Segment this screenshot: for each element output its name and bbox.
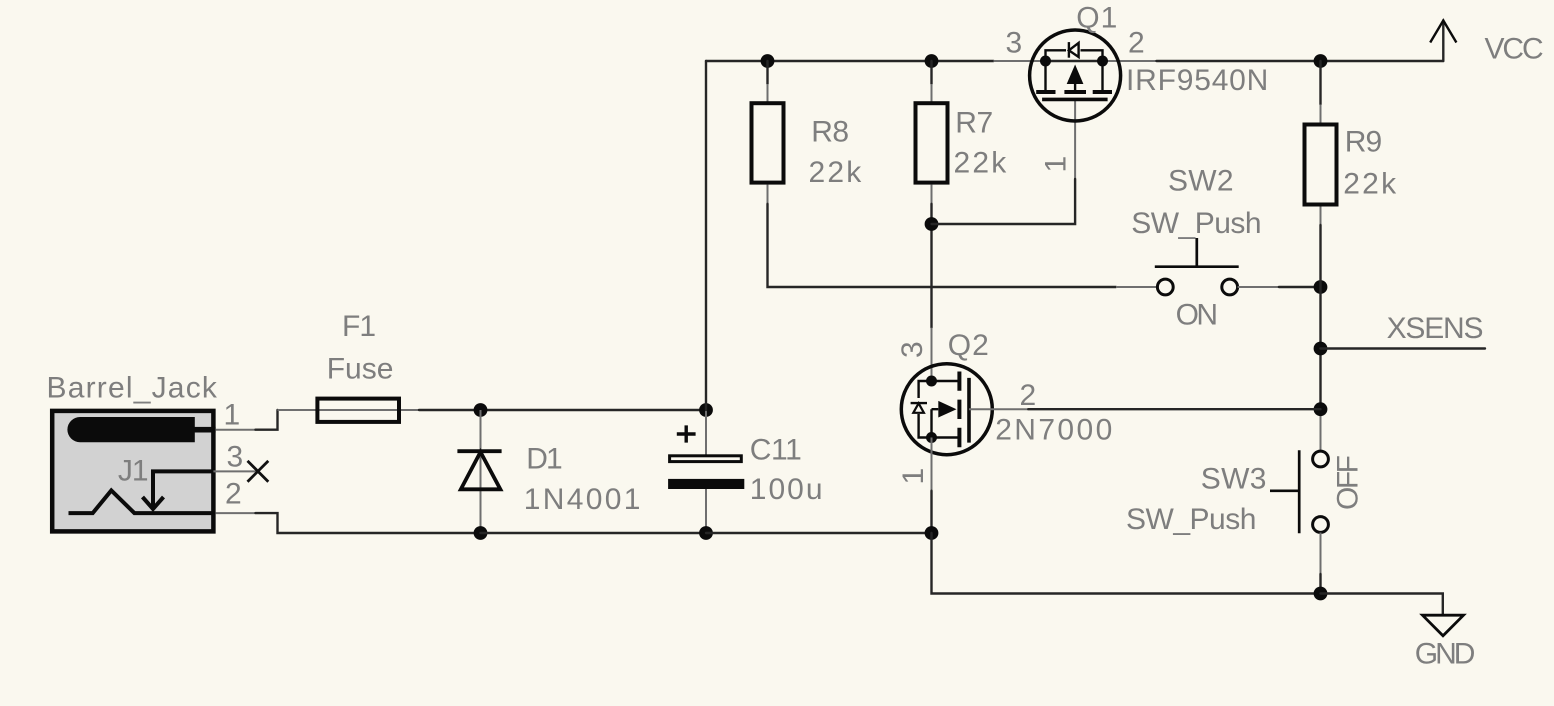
wire J1 pin3 stub bbox=[213, 470, 258, 472]
svg-text:3: 3 bbox=[227, 440, 244, 473]
svg-text:2: 2 bbox=[225, 478, 242, 511]
wire D1 to C11 top bbox=[481, 409, 707, 411]
wire top rail bbox=[706, 60, 994, 62]
wire SW3 bottom to GND rail bbox=[1320, 533, 1322, 575]
svg-text:2: 2 bbox=[1020, 379, 1037, 412]
resistor R8 bbox=[752, 103, 784, 182]
wire GND rail to ground symbol bbox=[1321, 594, 1443, 615]
transistor Q2 2N7000 bbox=[901, 364, 992, 455]
junction node SW2 R9 bbox=[1314, 280, 1328, 294]
junction bottom rail at D1 bbox=[474, 526, 488, 540]
svg-text:22k: 22k bbox=[809, 156, 864, 189]
svg-text:Fuse: Fuse bbox=[327, 352, 394, 385]
resistor R9 bbox=[1305, 125, 1337, 205]
svg-text:VCC: VCC bbox=[1485, 32, 1543, 65]
svg-text:R8: R8 bbox=[811, 116, 848, 149]
wire bottom rail C11 to Q2 bbox=[706, 532, 932, 534]
svg-text:1: 1 bbox=[224, 399, 241, 432]
svg-text:J1: J1 bbox=[118, 455, 148, 488]
no-connect X on J1 pin 3 bbox=[248, 461, 269, 482]
svg-text:Q1: Q1 bbox=[1076, 2, 1118, 35]
svg-text:22k: 22k bbox=[1343, 168, 1398, 201]
fuse F1 bbox=[317, 399, 399, 422]
svg-text:1N4001: 1N4001 bbox=[524, 483, 643, 516]
junction bottom rail at C11 bbox=[699, 526, 713, 540]
svg-text:IRF9540N: IRF9540N bbox=[1126, 64, 1269, 97]
wire Q2 gate to SW3 node bbox=[969, 408, 1028, 410]
svg-text:SW_Push: SW_Push bbox=[1131, 207, 1261, 240]
wire R9 bottom through junctions to SW3 bbox=[1320, 207, 1322, 226]
svg-text:SW3: SW3 bbox=[1201, 463, 1267, 496]
resistor R7 bbox=[916, 103, 948, 182]
svg-text:F1: F1 bbox=[342, 310, 375, 343]
svg-text:100u: 100u bbox=[750, 473, 825, 506]
svg-text:R9: R9 bbox=[1345, 125, 1382, 158]
svg-text:ON: ON bbox=[1176, 298, 1217, 331]
svg-text:22k: 22k bbox=[954, 146, 1009, 179]
wire VCC riser bbox=[1442, 21, 1444, 62]
svg-text:3: 3 bbox=[1006, 27, 1023, 60]
wire SW2 right to XSENS column bbox=[1238, 286, 1279, 288]
wire R7 bottom to Q2 drain bbox=[931, 185, 933, 204]
svg-text:Q2: Q2 bbox=[948, 329, 990, 362]
svg-text:GND: GND bbox=[1415, 637, 1475, 670]
svg-text:2: 2 bbox=[1128, 27, 1145, 60]
wire J1 pin1 to F1 bbox=[216, 429, 256, 431]
junction node R7 bottom Q1 gate bbox=[925, 217, 939, 231]
svg-text:Barrel_Jack: Barrel_Jack bbox=[47, 371, 219, 404]
junction node VIN at D1 cathode bbox=[474, 403, 488, 417]
svg-text:XSENS: XSENS bbox=[1387, 312, 1483, 345]
wire Q2 source to GND rail bbox=[932, 533, 1321, 594]
wire R8 top stub bbox=[766, 61, 768, 84]
wire XSENS label bbox=[1321, 347, 1486, 349]
transistor Q1 IRF9540N bbox=[1030, 30, 1121, 121]
wire Q1 gate to R7 node bbox=[1074, 99, 1076, 179]
switch SW2 SW_Push bbox=[1155, 238, 1239, 295]
capacitor C11 bbox=[668, 410, 744, 533]
junction node VIN at C11 plus bbox=[699, 403, 713, 417]
junction node XSENS tap bbox=[1314, 342, 1328, 356]
wire bottom rail D1 to C11 bbox=[481, 532, 707, 534]
diode D1 bbox=[457, 410, 501, 533]
wire R9 top stub bbox=[1319, 61, 1321, 105]
junction node GND rail at SW3 bbox=[1314, 587, 1328, 601]
junction bottom rail at Q2 source bbox=[925, 526, 939, 540]
svg-text:D1: D1 bbox=[526, 443, 562, 476]
wire Q2 source down to bottom-left rail bbox=[931, 438, 933, 491]
connector J1 Barrel_Jack body bbox=[52, 411, 215, 532]
svg-text:C11: C11 bbox=[750, 434, 802, 467]
svg-text:1: 1 bbox=[897, 468, 930, 485]
wire R8 bottom to SW2 bbox=[767, 185, 769, 204]
junction top rail at R7 bbox=[925, 54, 939, 68]
svg-text:SW_Push: SW_Push bbox=[1126, 503, 1256, 536]
wire VIN riser C11 to top rail bbox=[705, 61, 707, 410]
svg-text:SW2: SW2 bbox=[1168, 164, 1234, 197]
junction node Q2 gate SW3 bbox=[1314, 402, 1328, 416]
power VCC arrow symbol bbox=[1430, 21, 1456, 43]
wire J1 pin2 to bottom-left rail bbox=[216, 512, 256, 514]
ground GND symbol bbox=[1423, 615, 1464, 636]
svg-text:1: 1 bbox=[1040, 156, 1073, 173]
svg-text:2N7000: 2N7000 bbox=[995, 414, 1114, 447]
svg-text:R7: R7 bbox=[955, 107, 992, 140]
junction top rail at R8 bbox=[761, 54, 775, 68]
svg-text:OFF: OFF bbox=[1332, 455, 1365, 510]
junction VCC rail at R9 bbox=[1314, 54, 1328, 68]
svg-text:3: 3 bbox=[896, 341, 929, 358]
switch SW3 SW_Push bbox=[1270, 450, 1328, 533]
wire R7 top stub bbox=[930, 61, 932, 84]
